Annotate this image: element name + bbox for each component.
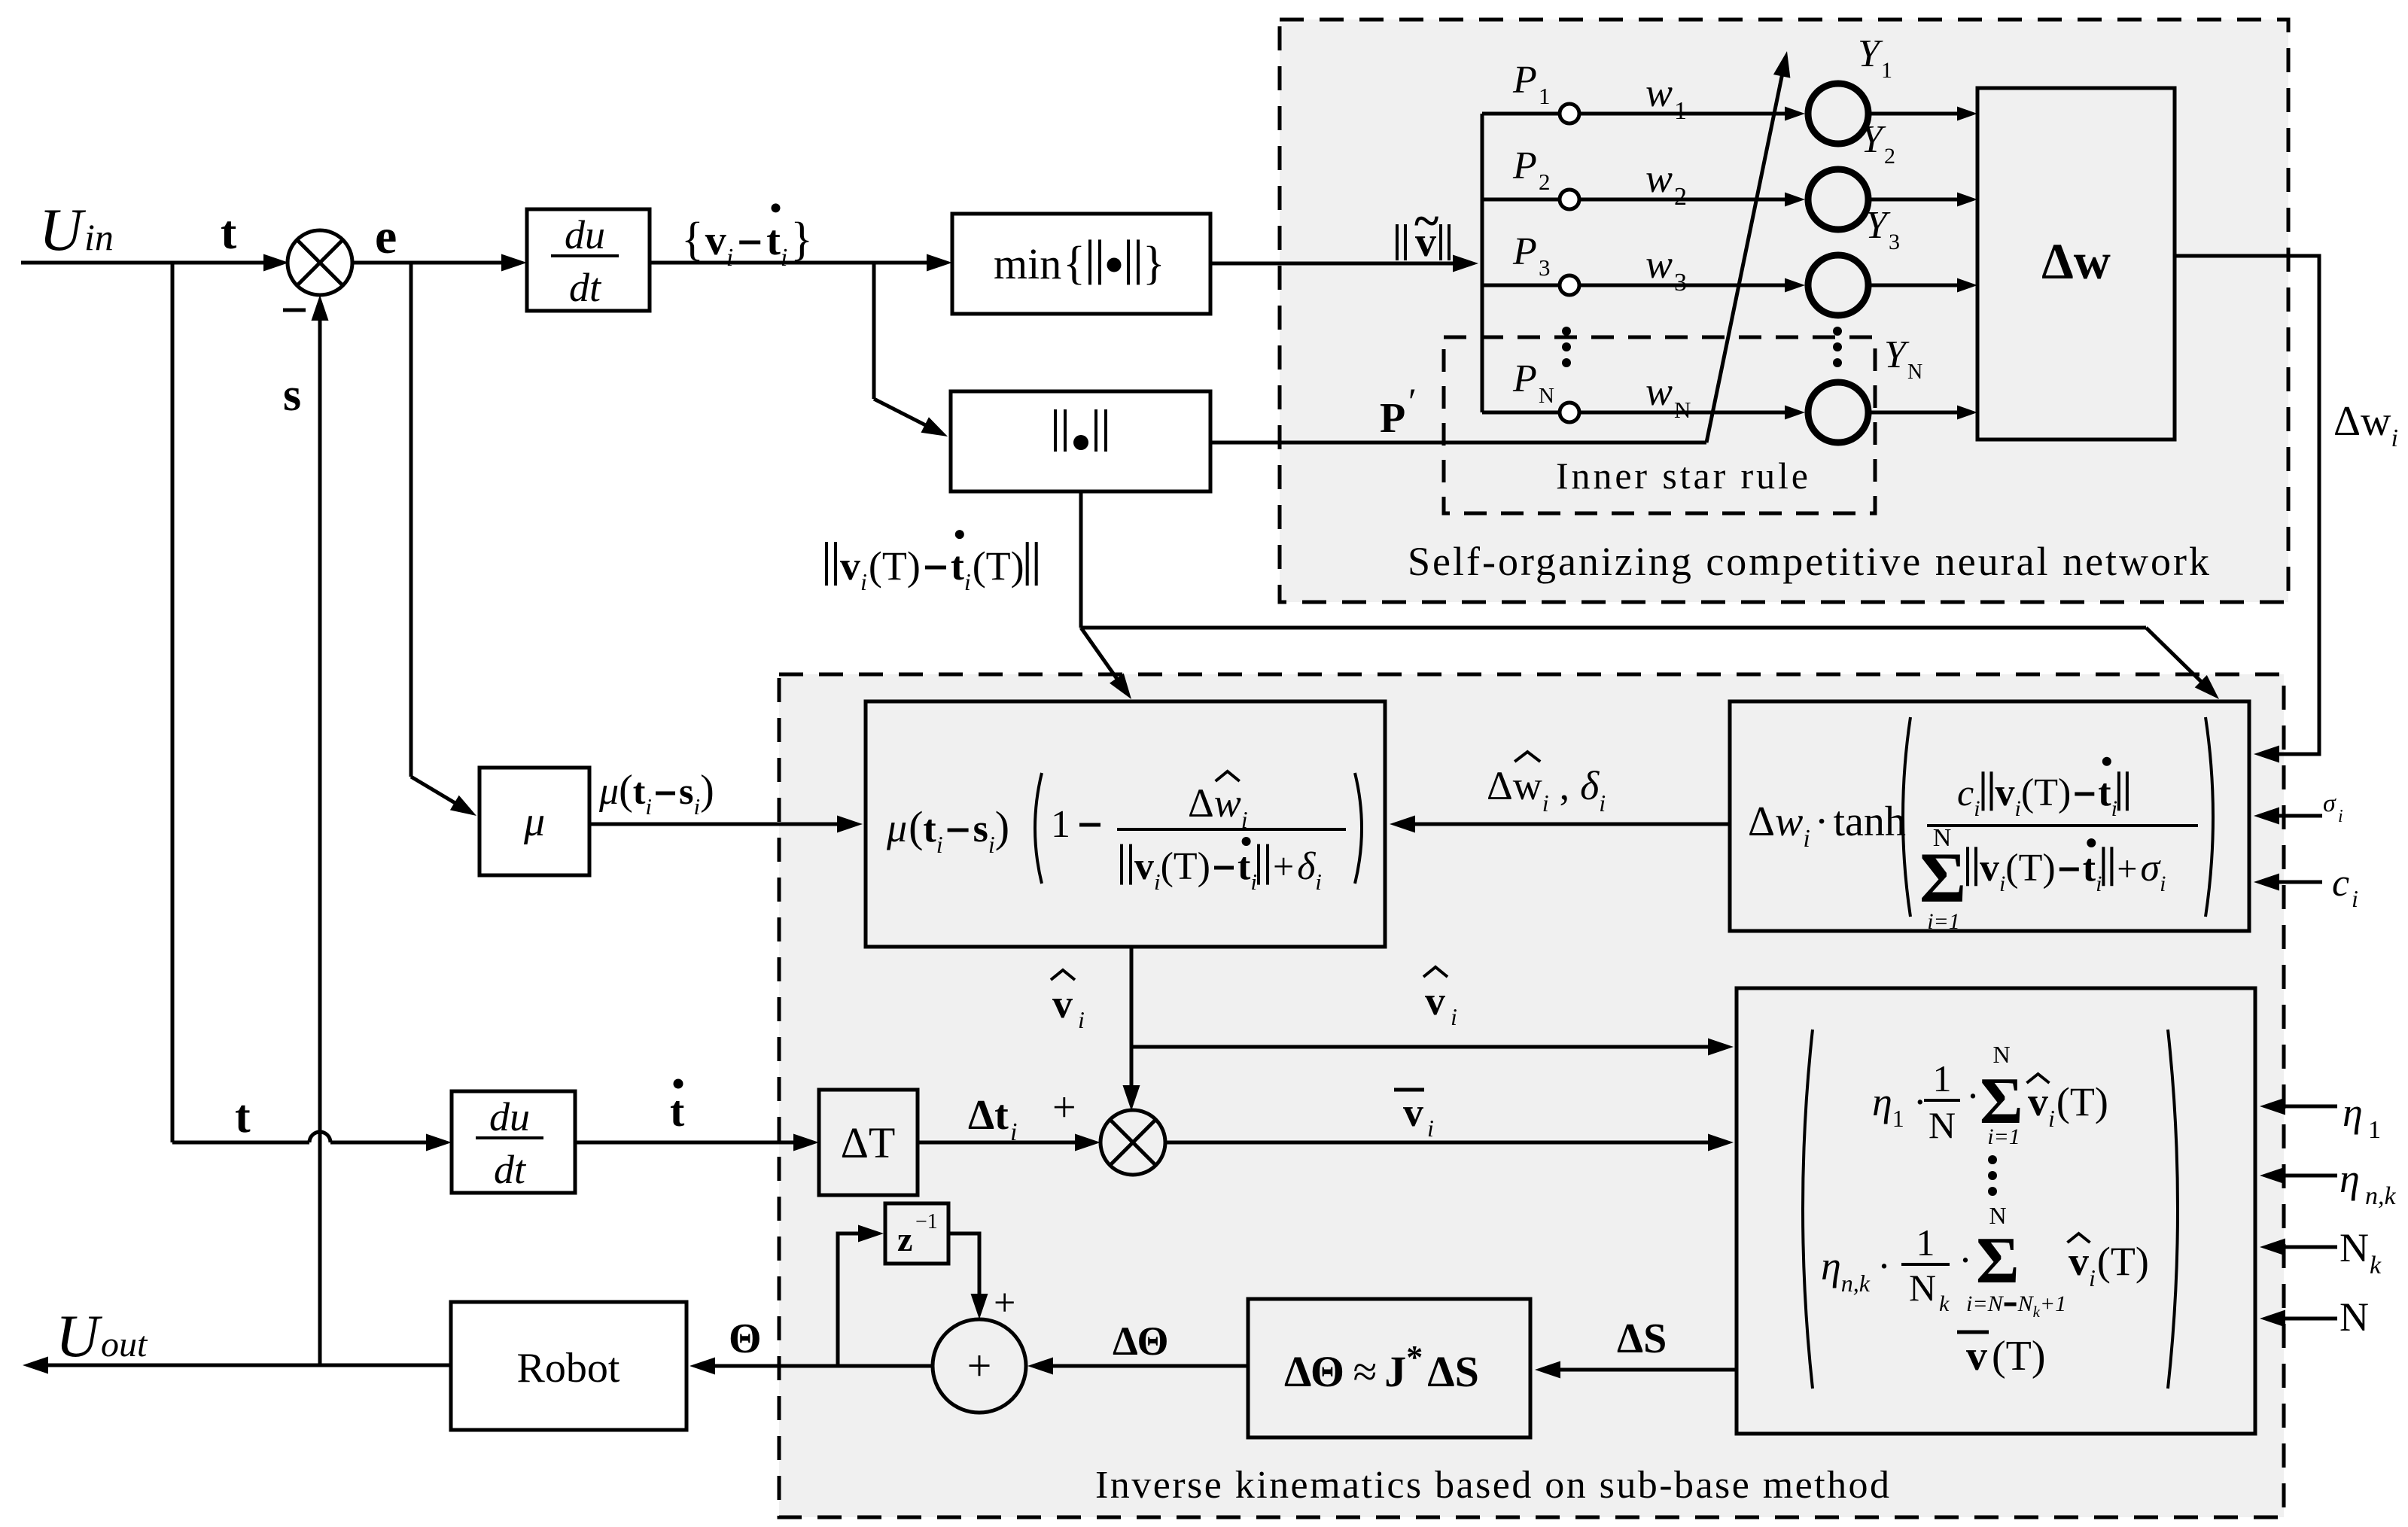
- svg-text:i: i: [1999, 871, 2005, 896]
- svg-text:P: P: [1512, 144, 1537, 187]
- svg-text:2: 2: [1539, 169, 1551, 195]
- svg-text:dt: dt: [494, 1147, 527, 1192]
- svg-text:1: 1: [1916, 1221, 1935, 1264]
- svg-text:k: k: [1939, 1291, 1950, 1316]
- svg-text:≈: ≈: [1353, 1347, 1378, 1396]
- svg-text:v: v: [1425, 978, 1445, 1024]
- svg-text:w: w: [1214, 780, 1241, 826]
- svg-text:t: t: [923, 808, 936, 850]
- svg-text:i=1: i=1: [1987, 1124, 2020, 1149]
- svg-text:η: η: [1821, 1243, 1841, 1288]
- svg-text:μ: μ: [598, 770, 619, 813]
- svg-text:N: N: [1929, 1104, 1956, 1146]
- svg-text:t: t: [2098, 771, 2111, 814]
- svg-text:Δ: Δ: [2333, 398, 2361, 445]
- svg-text:1: 1: [1539, 83, 1551, 109]
- svg-text:in: in: [84, 216, 114, 258]
- svg-text:i: i: [1154, 868, 1161, 895]
- svg-text:1: 1: [2368, 1116, 2381, 1144]
- svg-text:{: {: [1063, 238, 1085, 289]
- svg-text:N: N: [1909, 1267, 1936, 1309]
- svg-text:i: i: [2338, 807, 2343, 826]
- svg-text:v: v: [2028, 1079, 2048, 1124]
- svg-text:i: i: [964, 568, 971, 595]
- svg-text:1: 1: [1881, 58, 1892, 83]
- svg-text:c: c: [1957, 771, 1974, 814]
- svg-text:(T): (T): [973, 543, 1024, 589]
- svg-text:N: N: [2340, 1225, 2369, 1270]
- svg-text:+: +: [2117, 849, 2137, 889]
- svg-text:i: i: [1250, 868, 1257, 895]
- svg-text:}: }: [790, 214, 813, 265]
- svg-text:(T): (T): [2005, 847, 2055, 890]
- svg-text:(T): (T): [869, 543, 921, 589]
- svg-text:i: i: [988, 831, 995, 858]
- svg-text:+: +: [994, 1282, 1015, 1325]
- svg-text:·: ·: [1959, 1237, 1972, 1282]
- svg-text:δ: δ: [1580, 763, 1600, 808]
- svg-text:(T): (T): [1161, 845, 1210, 888]
- svg-text:P: P: [1512, 357, 1537, 400]
- svg-text:i: i: [2160, 871, 2166, 896]
- svg-text:ΔΘ: ΔΘ: [1113, 1319, 1168, 1364]
- svg-text:i: i: [936, 831, 943, 858]
- svg-text:η: η: [2340, 1156, 2360, 1201]
- svg-text:ΔS: ΔS: [1617, 1316, 1667, 1362]
- svg-text:v: v: [840, 543, 860, 589]
- svg-text:s: s: [679, 770, 693, 812]
- svg-text:1: 1: [1892, 1105, 1904, 1132]
- svg-text:(T): (T): [2056, 1079, 2108, 1124]
- svg-text:P: P: [1512, 59, 1537, 102]
- svg-text:i: i: [2015, 796, 2021, 821]
- svg-text:~: ~: [1414, 196, 1438, 247]
- svg-text:·: ·: [1877, 1243, 1891, 1288]
- svg-text:t: t: [951, 543, 964, 589]
- svg-text:i: i: [2111, 796, 2117, 821]
- svg-text:i: i: [1451, 1003, 1457, 1030]
- svg-text:w: w: [1645, 242, 1673, 287]
- svg-text:t: t: [2083, 847, 2096, 890]
- svg-text:(: (: [909, 802, 923, 851]
- svg-text:μ: μ: [523, 798, 545, 845]
- svg-text:Σ: Σ: [1919, 838, 1966, 917]
- svg-text:e: e: [375, 209, 397, 264]
- svg-text:v: v: [2069, 1239, 2089, 1284]
- svg-text:(T): (T): [1992, 1333, 2046, 1379]
- svg-text:w: w: [1645, 70, 1673, 115]
- svg-text:N: N: [2340, 1294, 2369, 1340]
- svg-text:Θ: Θ: [729, 1316, 762, 1362]
- svg-text:i: i: [1974, 796, 1980, 821]
- svg-text:t: t: [221, 205, 237, 259]
- svg-text:s: s: [283, 370, 301, 421]
- svg-text:du: du: [489, 1094, 530, 1139]
- svg-text:c: c: [2332, 862, 2349, 905]
- svg-text:N: N: [1674, 397, 1691, 423]
- svg-text:P: P: [1380, 395, 1405, 442]
- svg-text:σ: σ: [2323, 789, 2336, 817]
- svg-text:i: i: [781, 244, 787, 272]
- svg-text:(: (: [619, 767, 633, 814]
- svg-text:i: i: [2048, 1105, 2055, 1132]
- svg-text:3: 3: [1539, 254, 1551, 281]
- svg-text:+: +: [1052, 1084, 1076, 1131]
- svg-text:δ: δ: [1297, 845, 1316, 888]
- svg-text:i=1: i=1: [1927, 909, 1960, 934]
- svg-text:ΔS: ΔS: [1427, 1347, 1479, 1396]
- svg-text:t: t: [1237, 845, 1251, 888]
- svg-text:i: i: [645, 793, 652, 820]
- svg-text:U: U: [39, 197, 87, 263]
- svg-text:+: +: [967, 1341, 992, 1390]
- svg-text:i: i: [2096, 871, 2102, 896]
- svg-text:n,k: n,k: [1841, 1270, 1871, 1297]
- svg-text:,: ,: [1560, 763, 1570, 808]
- svg-text:i: i: [1315, 868, 1322, 895]
- svg-text:): ): [995, 802, 1009, 851]
- svg-text:i: i: [1427, 1115, 1434, 1142]
- svg-text:*: *: [1406, 1339, 1423, 1376]
- svg-text:η: η: [1872, 1079, 1892, 1124]
- svg-text:U: U: [56, 1303, 103, 1370]
- svg-text:w: w: [1645, 156, 1673, 201]
- svg-text:1: 1: [1933, 1057, 1952, 1100]
- svg-text:t: t: [670, 1087, 685, 1136]
- svg-text:Y: Y: [1858, 32, 1883, 75]
- svg-text:Inner star rule: Inner star rule: [1556, 455, 1808, 497]
- svg-text:i: i: [1010, 1118, 1017, 1146]
- svg-text:z: z: [897, 1220, 912, 1258]
- svg-text:N: N: [1539, 384, 1554, 408]
- svg-text:Δ: Δ: [1748, 798, 1775, 845]
- svg-text:N: N: [2017, 1291, 2035, 1316]
- svg-text:+: +: [1273, 845, 1294, 887]
- svg-text:v: v: [1966, 1333, 1987, 1379]
- svg-text:v: v: [1403, 1090, 1423, 1135]
- svg-text:k: k: [2370, 1252, 2382, 1279]
- svg-text:out: out: [101, 1325, 148, 1364]
- svg-text:1: 1: [1674, 97, 1687, 125]
- svg-text:Self-organizing competitive ne: Self-organizing competitive neural netwo…: [1408, 539, 2209, 584]
- svg-text:Y: Y: [1865, 204, 1891, 247]
- svg-text:ΔΘ: ΔΘ: [1284, 1347, 1344, 1396]
- svg-text:{: {: [681, 214, 704, 265]
- svg-text:i: i: [860, 568, 867, 595]
- svg-text:−1: −1: [915, 1210, 938, 1233]
- svg-text:P: P: [1512, 230, 1537, 273]
- svg-text:Robot: Robot: [517, 1345, 620, 1392]
- svg-text:Y: Y: [1884, 333, 1910, 376]
- svg-text:w: w: [1645, 369, 1673, 414]
- svg-text:w: w: [1513, 763, 1542, 808]
- svg-text:v: v: [1996, 771, 2015, 814]
- svg-text:i: i: [2352, 885, 2358, 912]
- svg-text:Inverse kinematics based on su: Inverse kinematics based on sub-base met…: [1095, 1464, 1889, 1507]
- svg-text:Δw: Δw: [2041, 233, 2111, 290]
- svg-text:Y: Y: [1861, 118, 1886, 161]
- svg-text:J: J: [1384, 1347, 1406, 1396]
- svg-text:Δ: Δ: [1188, 780, 1214, 826]
- svg-text:v: v: [1134, 845, 1154, 888]
- svg-text:t: t: [235, 1091, 251, 1142]
- svg-text:N: N: [1907, 360, 1922, 384]
- svg-text:i: i: [2391, 424, 2398, 452]
- svg-text:du: du: [565, 212, 605, 257]
- svg-text:i: i: [694, 793, 701, 820]
- svg-text:(T): (T): [2021, 771, 2071, 814]
- svg-text:i: i: [1078, 1006, 1085, 1033]
- svg-text:(T): (T): [2097, 1239, 2149, 1284]
- svg-text:): ): [700, 767, 714, 814]
- svg-text:3: 3: [1674, 269, 1687, 297]
- svg-text:N: N: [1992, 1041, 2010, 1068]
- svg-text:·: ·: [1815, 798, 1829, 845]
- svg-text:σ: σ: [2141, 847, 2162, 890]
- svg-text:μ: μ: [886, 805, 907, 850]
- svg-text:v: v: [1052, 981, 1073, 1027]
- svg-text:i: i: [1241, 806, 1248, 833]
- svg-text:}: }: [1143, 238, 1165, 289]
- svg-text:η: η: [2343, 1090, 2363, 1135]
- svg-text:i: i: [1542, 789, 1549, 817]
- svg-text:dt: dt: [569, 265, 602, 310]
- svg-text:w: w: [1775, 798, 1803, 845]
- svg-text:t: t: [633, 770, 646, 812]
- svg-text:i: i: [1803, 825, 1810, 853]
- svg-text:v: v: [1980, 847, 1999, 890]
- svg-text:Δt: Δt: [968, 1092, 1009, 1139]
- svg-text:min: min: [994, 239, 1061, 288]
- svg-text:s: s: [973, 808, 988, 850]
- svg-text:ΔT: ΔT: [841, 1118, 896, 1167]
- svg-text:2: 2: [1674, 183, 1687, 211]
- svg-text:tanh: tanh: [1834, 798, 1906, 845]
- svg-text:i: i: [726, 244, 733, 272]
- svg-text:1: 1: [1051, 803, 1070, 846]
- svg-text:Σ: Σ: [1976, 1224, 2020, 1297]
- svg-text:Δ: Δ: [1487, 763, 1513, 808]
- svg-text:v: v: [705, 217, 726, 264]
- svg-text:2: 2: [1884, 144, 1895, 169]
- svg-text:i=N: i=N: [1966, 1291, 2005, 1316]
- svg-text:i: i: [1599, 789, 1606, 817]
- svg-text:3: 3: [1889, 230, 1900, 254]
- svg-text:·: ·: [1966, 1073, 1980, 1118]
- svg-text:t: t: [766, 217, 781, 264]
- svg-text:w: w: [2361, 398, 2391, 445]
- svg-text:i: i: [2089, 1264, 2096, 1291]
- svg-text:′: ′: [1408, 380, 1417, 422]
- svg-text:n,k: n,k: [2365, 1182, 2397, 1210]
- svg-text:+1: +1: [2040, 1291, 2066, 1316]
